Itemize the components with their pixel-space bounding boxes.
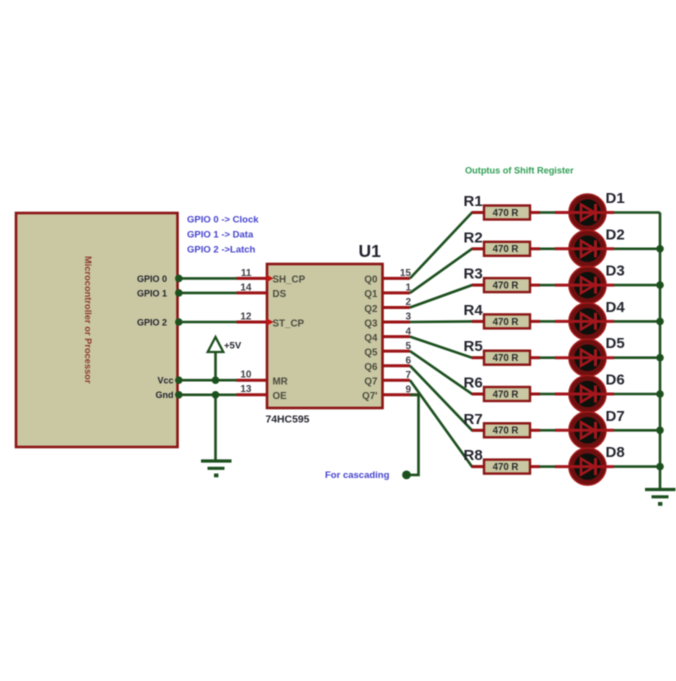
wire Q6 to R7 — [410, 366, 484, 431]
svg-text:R1: R1 — [464, 193, 483, 210]
pin stub Q4 pin 4 — [383, 335, 411, 338]
LED D5 — [555, 339, 614, 376]
svg-text:11: 11 — [241, 268, 252, 279]
pin number 4 — [405, 326, 411, 337]
wire R6 to D6 — [540, 393, 555, 396]
reference designator U1 — [359, 241, 382, 261]
svg-text:U1: U1 — [359, 241, 382, 261]
svg-text:Q7': Q7' — [362, 391, 377, 402]
svg-text:SH_CP: SH_CP — [273, 275, 306, 286]
ref label D2 — [606, 226, 625, 243]
ref label D3 — [606, 263, 625, 280]
svg-text:D1: D1 — [606, 190, 625, 207]
svg-text:R7: R7 — [464, 411, 483, 428]
wire Vcc-MR — [178, 379, 237, 382]
junction at MCU Vcc — [175, 376, 183, 384]
svg-text:R4: R4 — [464, 302, 484, 319]
junction at MCU GPIO0 — [175, 275, 183, 283]
microcontroller block — [16, 213, 178, 447]
wire R8 to D8 — [540, 465, 555, 468]
pin stub Q7-prime pin 9 — [383, 393, 419, 396]
LED D8 — [555, 448, 614, 485]
ref label D6 — [606, 372, 625, 389]
junction bus row 4 — [656, 318, 664, 326]
value label 470 R — [493, 426, 519, 437]
svg-text:R8: R8 — [464, 447, 483, 464]
pin number 15 — [400, 268, 412, 279]
pin stub Q1 pin 1 — [383, 291, 411, 294]
wire GPIO0-SH_CP — [178, 277, 237, 280]
svg-text:GPIO 1 -> Data: GPIO 1 -> Data — [187, 230, 254, 241]
net label Outptus of Shift Register — [465, 166, 574, 176]
svg-text:13: 13 — [240, 384, 252, 395]
pin stub DS pin 14 — [237, 291, 268, 294]
junction bus row 3 — [656, 281, 664, 289]
chip pin name Q7-prime — [362, 391, 377, 402]
wire R1 to D1 — [540, 211, 555, 214]
wire R3 to D3 — [540, 284, 555, 287]
resistor R8 470R — [472, 460, 540, 474]
pin label GPIO 1 — [137, 288, 167, 298]
wire GPIO2-ST_CP — [178, 321, 237, 324]
annotation For cascading — [325, 470, 390, 481]
shift register U1 74HC595 body — [267, 264, 383, 408]
ref label D4 — [606, 299, 626, 316]
svg-text:470 R: 470 R — [493, 317, 519, 328]
value label 470 R — [493, 317, 519, 328]
svg-text:470 R: 470 R — [493, 426, 519, 437]
svg-text:GPIO 2: GPIO 2 — [137, 317, 167, 327]
svg-text:D5: D5 — [606, 335, 625, 352]
wire Q5 to R6 — [410, 351, 484, 394]
svg-text:R2: R2 — [464, 229, 483, 246]
svg-text:GPIO 1: GPIO 1 — [137, 288, 167, 298]
part value 74HC595 — [266, 415, 310, 426]
annotation GPIO 0 mapping — [187, 215, 259, 226]
wire D8 to bus — [614, 465, 660, 468]
pin stub SH_CP pin 11 — [237, 275, 274, 282]
chip pin name Q2 — [364, 304, 378, 315]
svg-text:GPIO 2 ->Latch: GPIO 2 ->Latch — [187, 245, 256, 256]
LED D4 — [555, 303, 614, 340]
svg-text:470 R: 470 R — [493, 462, 519, 473]
ref label R6 — [464, 375, 483, 392]
junction Gnd wire — [212, 391, 220, 399]
chip pin name Q0 — [364, 275, 378, 286]
power symbol +5V — [208, 337, 242, 352]
chip pin name Q4 — [364, 333, 378, 344]
svg-text:D7: D7 — [606, 408, 625, 425]
svg-text:470 R: 470 R — [493, 281, 519, 292]
chip pin name Q3 — [364, 318, 378, 329]
chip pin name OE — [273, 391, 288, 402]
pin number 6 — [405, 355, 411, 366]
pin number 1 — [405, 283, 411, 294]
svg-text:Outptus of Shift Register: Outptus of Shift Register — [465, 166, 574, 176]
pin number 3 — [405, 312, 411, 323]
ref label R1 — [464, 193, 483, 210]
value label 470 R — [493, 389, 519, 400]
annotation GPIO 1 mapping — [187, 230, 254, 241]
chip pin name MR — [273, 377, 288, 388]
svg-text:74HC595: 74HC595 — [266, 415, 310, 426]
svg-text:Q5: Q5 — [364, 347, 378, 358]
svg-text:D6: D6 — [606, 372, 625, 389]
chip pin name DS — [273, 289, 287, 300]
svg-text:Microcontroller or Processor: Microcontroller or Processor — [83, 256, 93, 384]
svg-text:R6: R6 — [464, 375, 483, 392]
chip pin name SH_CP — [273, 275, 306, 286]
junction bus row 8 — [656, 463, 664, 471]
value label 470 R — [493, 353, 519, 364]
wire Q7-prime cascade — [407, 395, 419, 475]
svg-text:470 R: 470 R — [493, 208, 519, 219]
pin number 10 — [240, 370, 252, 381]
svg-text:Gnd: Gnd — [156, 390, 174, 400]
svg-text:For cascading: For cascading — [325, 470, 390, 481]
LED D2 — [555, 230, 614, 267]
wire D7 to bus — [614, 429, 660, 432]
chip pin name Q5 — [364, 347, 378, 358]
svg-text:GPIO 0: GPIO 0 — [137, 274, 167, 284]
resistor R6 470R — [472, 387, 540, 401]
pin number 2 — [405, 297, 411, 308]
pin stub Q0 pin 15 — [383, 277, 411, 280]
svg-text:Q6: Q6 — [364, 362, 378, 373]
LED D1 — [555, 194, 614, 231]
svg-text:7: 7 — [405, 370, 411, 381]
wire Q2 to R3 — [410, 285, 484, 307]
wire R4 to D4 — [540, 320, 555, 323]
pin number 11 — [241, 268, 252, 279]
pin label Gnd — [156, 390, 174, 400]
junction at MCU Gnd — [175, 391, 183, 399]
svg-text:D3: D3 — [606, 263, 625, 280]
pin number 7 — [405, 370, 411, 381]
wire D2 to bus — [614, 248, 660, 251]
pin stub Q2 pin 2 — [383, 306, 411, 309]
wire Q3 to R4 — [410, 320, 484, 323]
pin number 12 — [240, 311, 252, 322]
value label 470 R — [493, 281, 519, 292]
resistor R5 470R — [472, 351, 540, 365]
svg-text:470 R: 470 R — [493, 244, 519, 255]
svg-text:Q4: Q4 — [364, 333, 378, 344]
wire Q1 to R2 — [410, 249, 484, 293]
ref label R8 — [464, 447, 483, 464]
svg-text:Q2: Q2 — [364, 304, 378, 315]
wire R5 to D5 — [540, 356, 555, 359]
wire Q7 to R8 — [410, 380, 484, 466]
wire D4 to bus — [614, 320, 660, 323]
svg-text:D2: D2 — [606, 226, 625, 243]
pin stub OE pin 13 — [237, 393, 268, 396]
wire D1 to bus — [614, 211, 660, 214]
svg-text:Q7: Q7 — [364, 377, 378, 388]
chip pin name Q7 — [364, 377, 378, 388]
pin number 13 — [240, 384, 252, 395]
svg-text:ST_CP: ST_CP — [273, 318, 305, 329]
resistor R4 470R — [472, 314, 540, 328]
pin number 5 — [405, 341, 411, 352]
wire cathode bus — [659, 213, 662, 490]
pin number 14 — [240, 282, 252, 293]
ref label D1 — [606, 190, 625, 207]
junction at MCU GPIO1 — [175, 289, 183, 297]
svg-text:Vcc: Vcc — [157, 376, 173, 386]
svg-text:DS: DS — [273, 289, 287, 300]
ref label R5 — [464, 338, 483, 355]
LED D6 — [555, 375, 614, 412]
ref label D5 — [606, 335, 625, 352]
svg-text:Q0: Q0 — [364, 275, 378, 286]
pin label Vcc — [157, 376, 173, 386]
value label 470 R — [493, 244, 519, 255]
junction bus row 6 — [656, 390, 664, 398]
value label 470 R — [493, 208, 519, 219]
LED D3 — [555, 267, 614, 304]
wire GPIO1-DS — [178, 292, 237, 295]
value label 470 R — [493, 462, 519, 473]
ref label R4 — [464, 302, 484, 319]
svg-text:12: 12 — [240, 311, 252, 322]
pin stub Q6 pin 6 — [383, 364, 411, 367]
junction bus row 2 — [656, 245, 664, 253]
svg-text:Q3: Q3 — [364, 318, 378, 329]
ref label R2 — [464, 229, 483, 246]
pin number 9 — [405, 385, 411, 396]
svg-text:470 R: 470 R — [493, 389, 519, 400]
wire R7 to D7 — [540, 429, 555, 432]
ref label R7 — [464, 411, 483, 428]
resistor R3 470R — [472, 278, 540, 292]
wire Gnd-OE — [178, 393, 237, 396]
chip pin name Q6 — [364, 362, 378, 373]
wire D6 to bus — [614, 393, 660, 396]
junction at MCU GPIO2 — [175, 318, 183, 326]
pin stub ST_CP pin 12 — [237, 318, 274, 325]
wire Q4 to R5 — [410, 337, 484, 358]
svg-text:MR: MR — [273, 377, 288, 388]
annotation GPIO 2 mapping — [187, 245, 256, 256]
svg-text:+5V: +5V — [224, 341, 242, 352]
svg-text:OE: OE — [273, 391, 288, 402]
wire D3 to bus — [614, 284, 660, 287]
svg-text:GPIO 0 -> Clock: GPIO 0 -> Clock — [187, 215, 259, 226]
pin stub MR pin 10 — [237, 379, 268, 382]
junction +5V/Vcc — [212, 376, 220, 384]
resistor R2 470R — [472, 242, 540, 256]
svg-text:R5: R5 — [464, 338, 483, 355]
ref label R3 — [464, 266, 483, 283]
svg-text:R3: R3 — [464, 266, 483, 283]
pin stub Q7 pin 7 — [383, 379, 411, 382]
svg-text:D4: D4 — [606, 299, 626, 316]
ground symbol right — [645, 490, 676, 506]
wire R2 to D2 — [540, 248, 555, 251]
svg-text:D8: D8 — [606, 444, 625, 461]
chip pin name Q1 — [364, 289, 378, 300]
pin stub Q3 pin 3 — [383, 321, 411, 324]
ref label D7 — [606, 408, 625, 425]
svg-text:14: 14 — [240, 282, 252, 293]
wire Gnd junction to ground — [214, 395, 217, 460]
node for cascading — [402, 471, 411, 480]
pin label GPIO 0 — [137, 274, 167, 284]
ground symbol left — [201, 461, 232, 477]
junction bus row 5 — [656, 354, 664, 362]
wire +5V to Vcc junction — [214, 352, 217, 380]
wire D5 to bus — [614, 356, 660, 359]
resistor R1 470R — [472, 206, 540, 220]
wire Q0 to R1 — [410, 213, 484, 279]
svg-text:6: 6 — [405, 355, 411, 366]
ref label D8 — [606, 444, 625, 461]
chip pin name ST_CP — [273, 318, 305, 329]
svg-text:470 R: 470 R — [493, 353, 519, 364]
pin stub Q5 pin 5 — [383, 350, 411, 353]
svg-text:Q1: Q1 — [364, 289, 378, 300]
resistor R7 470R — [472, 423, 540, 437]
svg-text:10: 10 — [240, 370, 252, 381]
junction bus row 7 — [656, 427, 664, 435]
LED D7 — [555, 412, 614, 449]
svg-text:5: 5 — [405, 341, 411, 352]
pin label GPIO 2 — [137, 317, 167, 327]
